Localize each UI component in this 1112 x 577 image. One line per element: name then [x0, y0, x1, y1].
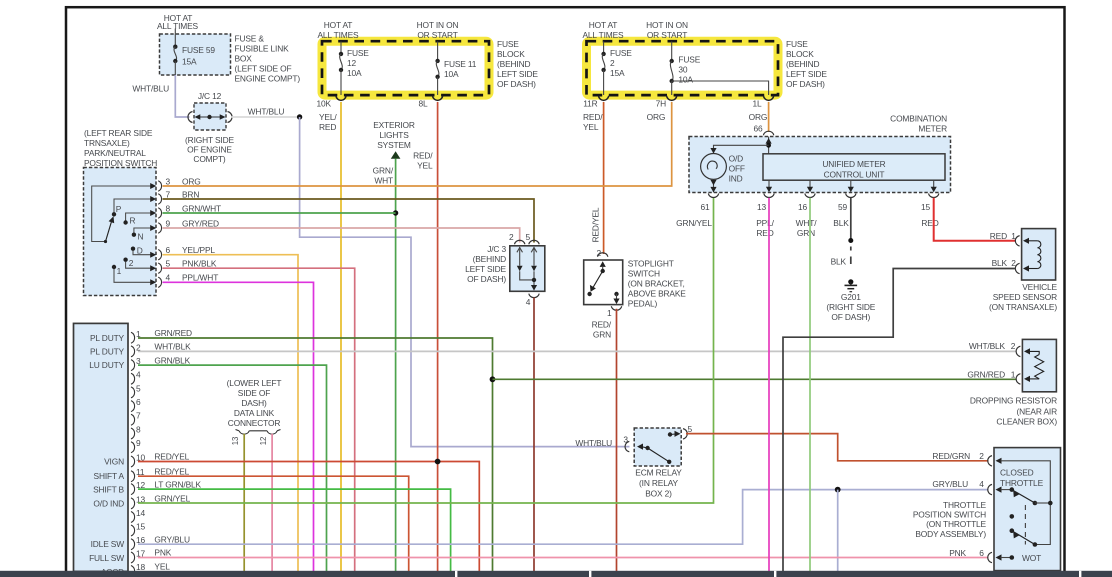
svg-text:5: 5 [136, 383, 141, 393]
svg-text:ALL TIMES: ALL TIMES [582, 30, 624, 40]
svg-text:(ON THROTTLE: (ON THROTTLE [926, 519, 986, 529]
svg-text:GRN/YEL: GRN/YEL [676, 218, 712, 228]
svg-text:(BEHIND: (BEHIND [497, 59, 530, 69]
svg-text:RED/YEL: RED/YEL [154, 452, 189, 462]
svg-text:8L: 8L [418, 99, 428, 109]
svg-text:PARK/NEUTRAL: PARK/NEUTRAL [84, 148, 146, 158]
TCM pin 13 [131, 494, 191, 509]
DLC pin 13 [231, 434, 244, 571]
svg-text:J/C 3: J/C 3 [487, 244, 506, 254]
svg-text:4: 4 [166, 273, 171, 283]
svg-text:14: 14 [136, 508, 146, 518]
wire WHT/BLU fuse59 to J/C12 [132, 75, 189, 117]
svg-text:2: 2 [979, 451, 984, 461]
meter pin 61 [676, 194, 719, 228]
svg-text:6: 6 [166, 245, 171, 255]
svg-text:18: 18 [136, 562, 146, 572]
svg-text:HOT IN ON: HOT IN ON [417, 20, 459, 30]
svg-text:FULL SW: FULL SW [89, 553, 124, 563]
junction connector J/C 3 [465, 232, 545, 307]
svg-text:2: 2 [1011, 341, 1016, 351]
svg-text:WHT/BLU: WHT/BLU [132, 84, 169, 94]
svg-text:UNIFIED METER: UNIFIED METER [822, 159, 885, 169]
svg-text:GRY/RED: GRY/RED [182, 219, 219, 229]
svg-text:WHT/BLK: WHT/BLK [969, 341, 1006, 351]
svg-text:DASH): DASH) [241, 398, 267, 408]
svg-text:9: 9 [136, 438, 141, 448]
connector 66 meter top [763, 131, 773, 135]
connector 7H [656, 96, 677, 109]
svg-text:GRN: GRN [797, 228, 815, 238]
meter internal ORG node [710, 137, 771, 154]
svg-text:METER: METER [918, 123, 947, 133]
svg-text:RED/: RED/ [592, 320, 612, 330]
meter pin 13 [756, 180, 774, 238]
wire PPL/RED meter pin 13 down [768, 198, 770, 571]
svg-text:CLEANER BOX): CLEANER BOX) [996, 416, 1057, 426]
wire GRY/BLU TCM pin 16 to throttle switch pin 4 [138, 490, 989, 545]
svg-text:YEL/PPL: YEL/PPL [182, 245, 215, 255]
svg-text:FUSE 59: FUSE 59 [182, 45, 215, 55]
svg-text:BRN: BRN [182, 190, 199, 200]
svg-text:CLOSED: CLOSED [1000, 468, 1034, 478]
svg-text:GRN/WHT: GRN/WHT [182, 204, 221, 214]
svg-text:66: 66 [753, 124, 763, 134]
wire WHT/BLK TCM pin 2 to resistor pin 2 [138, 350, 1016, 352]
svg-text:4: 4 [136, 370, 141, 380]
svg-text:10K: 10K [317, 99, 332, 109]
svg-text:(LEFT SIDE OF: (LEFT SIDE OF [235, 64, 292, 74]
svg-text:THROTTLE: THROTTLE [943, 500, 987, 510]
svg-text:ORG: ORG [749, 112, 768, 122]
wire GRN/WHT exterior lights [395, 159, 397, 572]
TCM pin 17 [131, 548, 172, 563]
svg-text:D: D [137, 246, 143, 256]
fuse 59 15A [173, 29, 215, 75]
wire BRN PNP pin 7 to J/C3 pin 5 [163, 199, 535, 243]
ECM relay [575, 424, 692, 499]
wire RED from 8L [413, 102, 438, 571]
svg-text:HOT AT: HOT AT [324, 20, 353, 30]
TCM pin 14 [131, 508, 146, 523]
svg-text:GRN/RED: GRN/RED [154, 328, 192, 338]
svg-text:2: 2 [509, 232, 514, 242]
svg-text:10A: 10A [444, 69, 459, 79]
svg-text:(NEAR AIR: (NEAR AIR [1016, 406, 1057, 416]
svg-text:15A: 15A [610, 68, 625, 78]
junction RED/YEL with 8L RED [435, 459, 441, 465]
svg-text:7H: 7H [656, 99, 667, 109]
svg-text:RED: RED [319, 122, 336, 132]
wire PPL/WHT PNP pin 4 [163, 282, 314, 571]
svg-text:13: 13 [231, 437, 240, 445]
svg-text:12: 12 [259, 437, 268, 445]
data link connector [227, 378, 282, 434]
TCM pin 2 [131, 342, 191, 357]
svg-text:GRN/YEL: GRN/YEL [154, 494, 190, 504]
ground G201 [826, 279, 875, 322]
TCM pin 5 [131, 383, 141, 398]
svg-text:PEDAL): PEDAL) [628, 299, 658, 309]
wire RED/YEL TCM pin 10 [138, 462, 479, 572]
svg-text:16: 16 [798, 202, 808, 212]
svg-text:VEHICLE: VEHICLE [1022, 282, 1057, 292]
svg-text:RED: RED [756, 228, 773, 238]
dropping resistor [967, 339, 1057, 426]
TCM pin 18 [131, 562, 170, 577]
svg-text:SHIFT B: SHIFT B [93, 485, 124, 495]
svg-text:59: 59 [838, 202, 848, 212]
svg-text:BLK: BLK [833, 218, 849, 228]
svg-text:ORG: ORG [182, 177, 201, 187]
svg-text:BOX 2): BOX 2) [645, 489, 672, 499]
svg-text:(ON TRANSAXLE): (ON TRANSAXLE) [989, 302, 1057, 312]
svg-text:1: 1 [1011, 369, 1016, 379]
svg-text:6: 6 [979, 548, 984, 558]
svg-text:PNK/BLK: PNK/BLK [182, 259, 217, 269]
svg-text:GRN/RED: GRN/RED [967, 369, 1005, 379]
TCM pin 10 [131, 452, 190, 467]
wire BLK speed sensor pin 2 [783, 269, 1016, 572]
svg-text:2: 2 [610, 58, 615, 68]
svg-text:BLK: BLK [831, 257, 847, 267]
wire GRN/RED branch to resistor pin 1 [493, 378, 1017, 380]
PNP pin 3 [150, 177, 200, 192]
wire RED/YEL TCM pin 11 [138, 476, 409, 571]
svg-text:YEL: YEL [583, 122, 599, 132]
svg-text:(LEFT REAR SIDE: (LEFT REAR SIDE [84, 128, 153, 138]
fuse 11 10A [435, 42, 476, 96]
fuse 12 10A [339, 42, 370, 96]
svg-text:10A: 10A [678, 74, 693, 84]
svg-text:THROTTLE: THROTTLE [1000, 478, 1044, 488]
svg-text:SPEED SENSOR: SPEED SENSOR [993, 292, 1057, 302]
svg-text:8: 8 [166, 204, 171, 214]
fuse 2 15A [601, 42, 632, 96]
PNP pin 6 [150, 245, 215, 260]
PNP pin 9 [150, 219, 219, 234]
svg-text:WHT/BLU: WHT/BLU [575, 438, 612, 448]
wire PNK TCM pin 17 to throttle switch pin 6 [138, 557, 989, 559]
meter pin 15 [921, 180, 939, 228]
TCM pin 1 [131, 328, 192, 343]
svg-text:RED: RED [990, 231, 1007, 241]
svg-text:P: P [116, 204, 122, 214]
svg-text:2: 2 [129, 258, 134, 268]
svg-text:GRN/: GRN/ [373, 166, 394, 176]
svg-text:IDLE SW: IDLE SW [91, 539, 125, 549]
connector 1L [752, 96, 773, 109]
connector 8L [418, 96, 442, 109]
wire RED/GRN ECM relay pin 5 to throttle switch pin 2 [686, 434, 989, 461]
svg-text:LEFT SIDE: LEFT SIDE [497, 69, 538, 79]
TCM pin 3 [131, 355, 191, 370]
vehicle speed sensor [989, 229, 1058, 312]
svg-text:FUSE 11: FUSE 11 [444, 59, 477, 69]
wire ORG from 7H to PNP pin 3 [163, 102, 672, 186]
svg-text:BLOCK: BLOCK [497, 49, 525, 59]
svg-text:6: 6 [136, 397, 141, 407]
wire RED meter pin 15 to speed sensor pin 1 [934, 198, 1016, 241]
svg-text:ALL TIMES: ALL TIMES [157, 21, 199, 31]
TCM pin 8 [131, 424, 141, 439]
throttle position switch [913, 448, 1061, 571]
wire GRN/YEL TCM pin 13 to meter pin 61 [138, 198, 714, 504]
svg-text:5: 5 [688, 424, 693, 434]
PNP contact P [112, 199, 151, 217]
svg-text:WHT/BLU: WHT/BLU [248, 107, 285, 117]
svg-text:R: R [130, 216, 136, 226]
svg-text:(RIGHT SIDE: (RIGHT SIDE [185, 135, 234, 145]
svg-text:ENGINE COMPT): ENGINE COMPT) [235, 74, 301, 84]
svg-text:WHT: WHT [374, 176, 393, 186]
wire BLK meter pin 59 to G201 [831, 198, 854, 267]
PNP contact D [131, 246, 151, 256]
svg-text:(RIGHT SIDE: (RIGHT SIDE [826, 302, 875, 312]
svg-text:COMPT): COMPT) [193, 154, 225, 164]
wire GRY/RED PNP pin 9 to J/C3 pin 2 [163, 228, 520, 243]
wire GRY/BLU branch down [837, 490, 839, 571]
svg-text:GRY/BLU: GRY/BLU [154, 534, 190, 544]
svg-text:YEL/: YEL/ [319, 112, 337, 122]
svg-text:RED/YEL: RED/YEL [591, 207, 601, 242]
wire J/C3 pin 4 down [533, 298, 535, 572]
svg-text:FUSE: FUSE [678, 55, 700, 65]
svg-text:7: 7 [166, 190, 171, 200]
DLC pin 12 [259, 434, 272, 571]
stoplight switch [584, 248, 687, 318]
wire RED/GRN stoplight pin 1 down [592, 309, 617, 571]
wire YEL from 10K [319, 102, 341, 571]
TCM pin 12 [131, 479, 202, 494]
svg-text:TRNSAXLE): TRNSAXLE) [84, 138, 130, 148]
PNP selector arm [106, 216, 115, 241]
svg-text:13: 13 [757, 202, 767, 212]
svg-text:BLK: BLK [992, 258, 1008, 268]
svg-text:ECM RELAY: ECM RELAY [635, 468, 682, 478]
wire ORG from 1L to combination meter pin 66 [749, 102, 769, 134]
PNP contact N [132, 228, 151, 241]
svg-text:HOT AT: HOT AT [589, 20, 618, 30]
PNP contact 2 [123, 258, 150, 269]
svg-text:STOPLIGHT: STOPLIGHT [628, 258, 674, 268]
svg-text:BLOCK: BLOCK [786, 49, 814, 59]
svg-text:OF DASH): OF DASH) [831, 312, 870, 322]
svg-text:(IN RELAY: (IN RELAY [639, 478, 679, 488]
TCM connector box (PL DUTY) [74, 323, 129, 577]
svg-text:WHT/BLK: WHT/BLK [154, 342, 191, 352]
wire GRN/WHT PNP pin 8 to junction [163, 212, 396, 214]
PNP pin 5 [150, 259, 217, 274]
wire YEL/PPL PNP pin 6 [163, 255, 299, 571]
svg-text:FUSE: FUSE [347, 48, 369, 58]
svg-text:11R: 11R [583, 99, 597, 109]
svg-text:GRN: GRN [593, 330, 611, 340]
node junction WHT/BLU [297, 114, 302, 119]
svg-text:PL DUTY: PL DUTY [90, 333, 125, 343]
svg-text:5: 5 [526, 232, 531, 242]
svg-text:1: 1 [607, 308, 612, 318]
svg-text:FUSE: FUSE [610, 48, 632, 58]
connector 10K [317, 96, 347, 109]
bottom scrollbar [0, 571, 1112, 577]
TCM pin 11 [131, 466, 190, 481]
park/neutral position switch [84, 128, 158, 296]
svg-text:15: 15 [136, 522, 146, 532]
TCM pin 16 [131, 534, 190, 549]
unified meter control unit [763, 154, 945, 180]
svg-text:RED/GRN: RED/GRN [932, 451, 970, 461]
svg-text:OF DASH): OF DASH) [497, 79, 536, 89]
junction GRN/RED [490, 376, 496, 382]
exterior lights system arrow [373, 120, 415, 186]
svg-text:FUSE: FUSE [786, 39, 808, 49]
fuse block 2 (behind left side of dash) [582, 20, 827, 95]
svg-text:PNK: PNK [949, 548, 966, 558]
svg-text:(ON BRACKET,: (ON BRACKET, [628, 279, 685, 289]
junction GRY/BLU [835, 487, 841, 493]
svg-text:YEL: YEL [154, 562, 170, 572]
svg-text:PPL/: PPL/ [756, 218, 774, 228]
wire WHT/BLU node to ECM relay pin 3 [300, 117, 630, 447]
svg-text:LIGHTS: LIGHTS [379, 130, 409, 140]
svg-text:O/D: O/D [729, 153, 744, 163]
O/D OFF indicator lamp [701, 153, 745, 183]
wire WHT J/C12 to node [232, 107, 300, 118]
junction GRN/WHT [393, 210, 398, 215]
svg-text:DROPPING RESISTOR: DROPPING RESISTOR [970, 395, 1057, 405]
fuse 30 10A [670, 42, 701, 96]
wire GRN/BLK TCM pin 3 [138, 365, 327, 571]
svg-text:(BEHIND: (BEHIND [473, 254, 506, 264]
svg-text:BODY ASSEMBLY): BODY ASSEMBLY) [915, 529, 986, 539]
svg-text:PNK: PNK [154, 548, 171, 558]
svg-text:SYSTEM: SYSTEM [377, 140, 411, 150]
svg-text:HOT IN ON: HOT IN ON [646, 20, 688, 30]
TCM pin 6 [131, 397, 141, 412]
svg-text:SIDE OF: SIDE OF [238, 388, 270, 398]
PNP contact 1 [112, 265, 151, 283]
junction connector J/C 12 [185, 91, 234, 164]
svg-text:SHIFT A: SHIFT A [94, 471, 125, 481]
svg-text:5: 5 [166, 259, 171, 269]
svg-text:FUSIBLE LINK: FUSIBLE LINK [235, 44, 290, 54]
svg-text:FUSE: FUSE [497, 39, 519, 49]
svg-text:8: 8 [136, 424, 141, 434]
wire fuse 30 jog to 1L [672, 81, 769, 95]
svg-text:15A: 15A [182, 57, 197, 67]
wire YEL TCM pin 18 [138, 572, 560, 574]
combination meter [689, 113, 951, 192]
svg-text:1: 1 [117, 266, 122, 276]
lamp output wire to pin 61 [710, 179, 716, 192]
svg-text:SWITCH: SWITCH [628, 268, 660, 278]
svg-text:G201: G201 [841, 292, 861, 302]
PNP contact R [123, 213, 150, 226]
svg-text:RED/YEL: RED/YEL [154, 466, 189, 476]
svg-text:ORG: ORG [647, 112, 666, 122]
svg-text:2: 2 [596, 248, 601, 258]
PNP pin 8 [150, 204, 221, 219]
svg-text:POSITION SWITCH: POSITION SWITCH [84, 158, 157, 168]
svg-text:OFF: OFF [729, 164, 745, 174]
svg-text:4: 4 [526, 297, 531, 307]
svg-text:N: N [138, 231, 144, 241]
svg-text:RED: RED [921, 218, 938, 228]
PNP pin 4 [150, 273, 218, 288]
svg-text:CONNECTOR: CONNECTOR [228, 418, 281, 428]
PNP common feed contact [92, 186, 151, 243]
svg-text:POSITION SWITCH: POSITION SWITCH [913, 510, 986, 520]
PNP pin 7 [150, 190, 199, 205]
svg-text:15: 15 [921, 202, 931, 212]
svg-text:OF DASH): OF DASH) [786, 79, 825, 89]
svg-text:YEL: YEL [417, 161, 433, 171]
svg-text:OR START: OR START [647, 30, 687, 40]
wire RED/YEL from 11R to stoplight switch [583, 102, 604, 254]
svg-text:OF DASH): OF DASH) [467, 274, 506, 284]
TCM pin 15 [131, 522, 146, 537]
svg-text:ABOVE BRAKE: ABOVE BRAKE [628, 289, 686, 299]
svg-text:LEFT SIDE: LEFT SIDE [786, 69, 827, 79]
TCM pin 7 [131, 411, 141, 426]
svg-text:GRY/BLU: GRY/BLU [932, 479, 968, 489]
TCM pin 9 [131, 438, 141, 453]
svg-text:PL DUTY: PL DUTY [90, 347, 125, 357]
svg-text:LT GRN/BLK: LT GRN/BLK [154, 479, 201, 489]
svg-text:GRN/BLK: GRN/BLK [154, 355, 190, 365]
connector 11R [583, 96, 609, 109]
svg-text:RED/: RED/ [583, 112, 603, 122]
svg-text:FUSE &: FUSE & [235, 34, 265, 44]
svg-text:OF ENGINE: OF ENGINE [187, 145, 232, 155]
svg-text:DATA LINK: DATA LINK [234, 408, 275, 418]
svg-text:12: 12 [347, 58, 357, 68]
wire GRN/RED TCM pin 1 to dropping resistor [138, 338, 493, 571]
svg-text:OR START: OR START [417, 30, 457, 40]
wire LT GRN/BLK TCM pin 12 [138, 489, 451, 571]
svg-text:VIGN: VIGN [104, 457, 124, 467]
svg-text:9: 9 [166, 219, 171, 229]
svg-text:EXTERIOR: EXTERIOR [373, 120, 415, 130]
fuse & fusible link box [157, 13, 300, 84]
svg-text:COMBINATION: COMBINATION [890, 113, 947, 123]
svg-text:RED/: RED/ [413, 151, 433, 161]
fuse block 1 (behind left side of dash) [317, 20, 538, 95]
wire PNK/BLK PNP pin 5 [163, 268, 355, 571]
svg-text:ALL TIMES: ALL TIMES [317, 30, 359, 40]
TCM pin 4 [131, 370, 141, 385]
svg-text:10A: 10A [347, 68, 362, 78]
svg-text:PPL/WHT: PPL/WHT [182, 273, 218, 283]
svg-text:(LOWER LEFT: (LOWER LEFT [227, 378, 282, 388]
svg-text:3: 3 [166, 177, 171, 187]
svg-text:O/D IND: O/D IND [93, 499, 124, 509]
svg-text:61: 61 [700, 202, 710, 212]
meter pin 59 [833, 180, 856, 228]
wire WHT/GRN meter pin 16 down [809, 198, 811, 571]
svg-text:LEFT SIDE: LEFT SIDE [465, 264, 506, 274]
svg-text:LU DUTY: LU DUTY [89, 360, 124, 370]
svg-text:7: 7 [136, 411, 141, 421]
svg-text:WOT: WOT [1022, 553, 1041, 563]
meter pin 16 [796, 180, 818, 238]
svg-text:4: 4 [979, 479, 984, 489]
svg-text:IND: IND [729, 174, 743, 184]
svg-text:J/C 12: J/C 12 [198, 91, 222, 101]
svg-text:(BEHIND: (BEHIND [786, 59, 819, 69]
svg-text:BOX: BOX [235, 54, 253, 64]
